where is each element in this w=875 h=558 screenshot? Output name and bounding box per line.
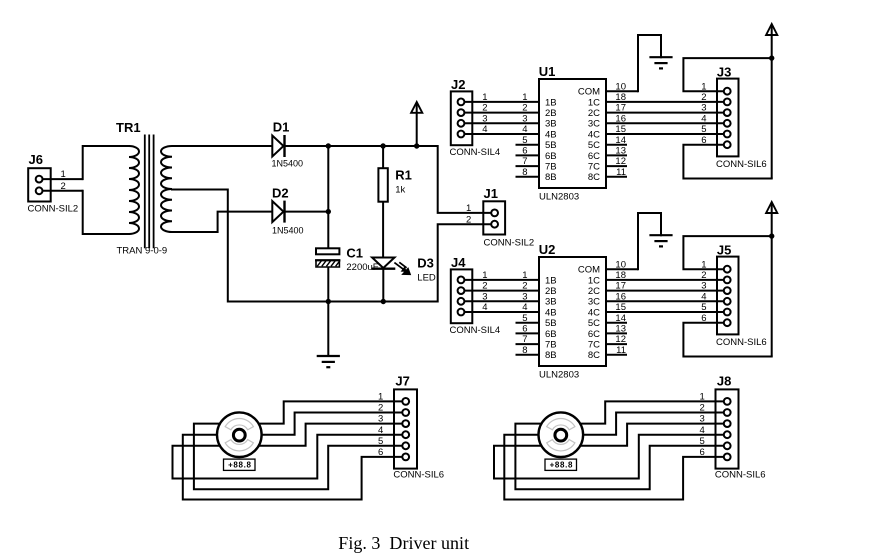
wire motor RB to J7 pin 3 bbox=[239, 424, 405, 446]
junction D2/C1 node bbox=[326, 209, 331, 214]
svg-text:3: 3 bbox=[378, 414, 383, 425]
svg-text:13: 13 bbox=[615, 324, 626, 335]
svg-text:8B: 8B bbox=[545, 172, 557, 183]
svg-text:7B: 7B bbox=[545, 162, 557, 173]
svg-text:15: 15 bbox=[615, 124, 626, 135]
wire C1 to 0V rail bbox=[327, 267, 329, 302]
svg-text:5: 5 bbox=[701, 124, 706, 135]
connector J4 (CONN-SIL4) bbox=[450, 255, 540, 336]
wire C1 branch vertical bbox=[327, 146, 329, 248]
svg-text:D3: D3 bbox=[417, 256, 434, 271]
svg-text:8: 8 bbox=[522, 167, 527, 178]
wire R1 to D3 bbox=[382, 202, 384, 258]
svg-text:6: 6 bbox=[378, 447, 383, 458]
svg-text:2C: 2C bbox=[588, 108, 600, 119]
svg-text:2: 2 bbox=[522, 103, 527, 114]
resistor R1 1k bbox=[378, 168, 387, 202]
svg-text:4C: 4C bbox=[588, 129, 600, 140]
svg-text:6C: 6C bbox=[588, 151, 600, 162]
svg-text:1: 1 bbox=[482, 92, 487, 103]
svg-text:6: 6 bbox=[701, 135, 706, 146]
svg-text:Fig. 3 Driver unit: Fig. 3 Driver unit bbox=[338, 533, 469, 553]
LED D3 bbox=[371, 258, 411, 276]
wire ground stem bbox=[327, 302, 329, 357]
svg-text:LED: LED bbox=[417, 273, 436, 284]
connector J2 (CONN-SIL4) bbox=[450, 77, 540, 158]
wire motor LT to J8 pin 5 bbox=[515, 424, 727, 490]
junction top rail / R1 branch bbox=[380, 143, 385, 148]
svg-text:3C: 3C bbox=[588, 297, 600, 308]
svg-text:16: 16 bbox=[615, 291, 626, 302]
svg-text:3: 3 bbox=[522, 291, 527, 302]
stub U1 pin 14 (5C) bbox=[606, 144, 627, 146]
connector J7 (CONN-SIL6) bbox=[393, 373, 444, 480]
wire D3 cathode to 0V rail bbox=[382, 269, 384, 302]
svg-text:J8: J8 bbox=[717, 373, 731, 388]
svg-text:CONN-SIL6: CONN-SIL6 bbox=[393, 470, 444, 481]
svg-text:1B: 1B bbox=[545, 97, 557, 108]
wire R1 top bbox=[382, 146, 384, 168]
svg-text:4: 4 bbox=[482, 302, 487, 313]
svg-text:17: 17 bbox=[615, 281, 626, 292]
svg-text:8C: 8C bbox=[588, 172, 600, 183]
power symbol +V arrow (J5) bbox=[766, 202, 777, 357]
svg-text:5: 5 bbox=[700, 436, 705, 447]
svg-text:7C: 7C bbox=[588, 340, 600, 351]
wire U1 3C to J3 pin 4 bbox=[606, 122, 727, 124]
wire J1 pin 2 to 0V rail bbox=[438, 224, 495, 301]
svg-text:J7: J7 bbox=[395, 373, 409, 388]
svg-text:J4: J4 bbox=[451, 255, 466, 270]
svg-text:4B: 4B bbox=[545, 307, 557, 318]
svg-text:D2: D2 bbox=[272, 186, 289, 201]
diode D2 1N5400 bbox=[272, 201, 284, 223]
junction top rail / C1 branch bbox=[326, 143, 331, 148]
ground symbol (U2 COM) bbox=[649, 235, 672, 246]
svg-text:1: 1 bbox=[701, 81, 706, 92]
svg-text:5C: 5C bbox=[588, 140, 600, 151]
svg-text:1C: 1C bbox=[588, 97, 600, 108]
svg-text:6: 6 bbox=[522, 146, 527, 157]
junction top rail / power arrow bbox=[414, 143, 419, 148]
svg-text:CONN-SIL4: CONN-SIL4 bbox=[450, 325, 501, 336]
svg-text:1: 1 bbox=[522, 270, 527, 281]
wire J6.2 to TR1 primary bottom bbox=[83, 191, 129, 234]
svg-text:CONN-SIL6: CONN-SIL6 bbox=[716, 159, 767, 170]
svg-text:J6: J6 bbox=[29, 152, 43, 167]
svg-text:3: 3 bbox=[482, 291, 487, 302]
svg-text:2: 2 bbox=[482, 281, 487, 292]
svg-text:8: 8 bbox=[522, 345, 527, 356]
wire U1 COM to ground bbox=[638, 35, 661, 91]
svg-text:CONN-SIL6: CONN-SIL6 bbox=[716, 337, 767, 348]
wire motor LT to J7 pin 5 bbox=[194, 424, 406, 490]
svg-text:J3: J3 bbox=[717, 64, 731, 79]
svg-text:6B: 6B bbox=[545, 329, 557, 340]
svg-text:11: 11 bbox=[616, 167, 626, 178]
stub U2 pin 10 (COM) bbox=[606, 268, 638, 270]
capacitor C1 2200uF bbox=[315, 248, 340, 267]
stub U2 pin 6 (6B) bbox=[516, 332, 540, 334]
svg-text:CONN-SIL4: CONN-SIL4 bbox=[450, 147, 501, 158]
wire U2 4C to J5 pin 5 bbox=[606, 311, 727, 313]
diode D1 1N5400 bbox=[272, 135, 284, 157]
stub U1 pin 6 (6B) bbox=[516, 154, 540, 156]
svg-text:1C: 1C bbox=[588, 275, 600, 286]
svg-text:5: 5 bbox=[378, 436, 383, 447]
wire motor LC to J8 pin 6 bbox=[504, 435, 727, 500]
svg-text:18: 18 bbox=[615, 92, 626, 103]
svg-text:4C: 4C bbox=[588, 307, 600, 318]
svg-text:5: 5 bbox=[522, 135, 527, 146]
motor display +88.8 (J7) bbox=[224, 459, 256, 470]
transformer TR1 secondary winding bbox=[161, 146, 172, 232]
ground symbol (supply) bbox=[317, 356, 340, 367]
svg-text:6C: 6C bbox=[588, 329, 600, 340]
connector J5 (CONN-SIL6) bbox=[716, 242, 767, 348]
svg-text:5B: 5B bbox=[545, 318, 557, 329]
svg-text:+88.8: +88.8 bbox=[228, 461, 251, 470]
svg-text:TRAN 9-0-9: TRAN 9-0-9 bbox=[117, 246, 168, 257]
svg-text:8B: 8B bbox=[545, 350, 557, 361]
svg-text:15: 15 bbox=[615, 302, 626, 313]
motor display +88.8 (J8) bbox=[545, 459, 577, 470]
svg-text:1N5400: 1N5400 bbox=[272, 226, 304, 236]
svg-text:+88.8: +88.8 bbox=[550, 461, 573, 470]
svg-text:D1: D1 bbox=[273, 120, 290, 135]
wire U2 3C to J5 pin 4 bbox=[606, 300, 727, 302]
wire motor RT to J8 pin 1 bbox=[561, 401, 727, 423]
wire J6.1 to TR1 primary top bbox=[83, 146, 129, 179]
svg-text:2: 2 bbox=[522, 281, 527, 292]
svg-text:1: 1 bbox=[701, 259, 706, 270]
stub U2 pin 8 (8B) bbox=[516, 354, 540, 356]
connector J1 (CONN-SIL2) bbox=[483, 186, 534, 249]
wire J3 pin 6 to +V rail bbox=[683, 145, 771, 179]
svg-text:10: 10 bbox=[615, 259, 626, 270]
svg-text:10: 10 bbox=[615, 81, 626, 92]
svg-text:1: 1 bbox=[522, 92, 527, 103]
wire motor RT to J7 pin 1 bbox=[239, 401, 405, 423]
svg-text:C1: C1 bbox=[346, 246, 363, 261]
IC U1 ULN2803 body bbox=[539, 79, 606, 188]
svg-text:6: 6 bbox=[700, 447, 705, 458]
svg-text:4: 4 bbox=[522, 302, 527, 313]
svg-text:12: 12 bbox=[615, 334, 626, 345]
stub U2 pin 12 (7C) bbox=[606, 343, 627, 345]
transformer TR1 core bbox=[144, 135, 146, 249]
IC U2 ULN2803 body bbox=[539, 257, 606, 366]
svg-text:8C: 8C bbox=[588, 350, 600, 361]
svg-text:U1: U1 bbox=[539, 64, 556, 79]
stub U1 pin 5 (5B) bbox=[516, 144, 540, 146]
wire motor LB to J7 pin 4 bbox=[173, 435, 406, 479]
svg-text:4: 4 bbox=[700, 425, 705, 436]
stub U1 pin 7 (7B) bbox=[516, 165, 540, 167]
svg-text:12: 12 bbox=[615, 156, 626, 167]
wire J5 pin 1 to +V rail bbox=[683, 236, 771, 269]
stub U1 pin 11 (8C) bbox=[606, 176, 627, 178]
svg-text:6B: 6B bbox=[545, 151, 557, 162]
stepper motor (J8) bbox=[539, 412, 584, 457]
svg-text:COM: COM bbox=[578, 265, 600, 276]
wire motor RC to J7 pin 2 bbox=[239, 413, 405, 435]
wire U2 COM to ground bbox=[638, 213, 661, 269]
svg-text:2: 2 bbox=[378, 403, 383, 414]
stub U2 pin 11 (8C) bbox=[606, 354, 627, 356]
svg-text:3: 3 bbox=[522, 113, 527, 124]
stub U2 pin 5 (5B) bbox=[516, 322, 540, 324]
svg-text:14: 14 bbox=[615, 313, 626, 324]
svg-text:3B: 3B bbox=[545, 119, 557, 130]
ground symbol (U1 COM) bbox=[649, 57, 672, 68]
svg-text:4: 4 bbox=[701, 113, 706, 124]
junction 0V rail / ground bbox=[326, 299, 331, 304]
svg-text:1B: 1B bbox=[545, 275, 557, 286]
wire U1 2C to J3 pin 3 bbox=[606, 112, 727, 114]
wire TR1 center tap to 0V rail bbox=[172, 190, 228, 302]
wire J5 pin 6 to +V rail bbox=[683, 323, 771, 357]
stub U1 pin 13 (6C) bbox=[606, 154, 627, 156]
svg-text:2: 2 bbox=[701, 92, 706, 103]
svg-text:3C: 3C bbox=[588, 119, 600, 130]
svg-text:J1: J1 bbox=[484, 186, 498, 201]
svg-text:3: 3 bbox=[701, 103, 706, 114]
stub U2 pin 7 (7B) bbox=[516, 343, 540, 345]
svg-text:TR1: TR1 bbox=[116, 120, 141, 135]
svg-text:16: 16 bbox=[615, 113, 626, 124]
svg-text:3: 3 bbox=[701, 281, 706, 292]
svg-text:1N5400: 1N5400 bbox=[272, 159, 304, 169]
svg-text:11: 11 bbox=[616, 345, 626, 356]
svg-text:1: 1 bbox=[378, 392, 383, 403]
svg-text:7: 7 bbox=[522, 334, 527, 345]
svg-text:2B: 2B bbox=[545, 286, 557, 297]
stub U2 pin 13 (6C) bbox=[606, 332, 627, 334]
svg-text:4: 4 bbox=[701, 291, 706, 302]
svg-text:1: 1 bbox=[466, 203, 471, 214]
wire +V rail to J1 pin 1 bbox=[438, 146, 495, 213]
stub U1 pin 12 (7C) bbox=[606, 165, 627, 167]
svg-text:1: 1 bbox=[700, 392, 705, 403]
svg-text:5C: 5C bbox=[588, 318, 600, 329]
svg-text:2: 2 bbox=[701, 270, 706, 281]
svg-text:13: 13 bbox=[615, 146, 626, 157]
power symbol +V arrow (center) bbox=[411, 102, 422, 146]
svg-text:4: 4 bbox=[482, 124, 487, 135]
wire J3 pin 1 to +V rail bbox=[683, 58, 771, 91]
stepper motor (J7) bbox=[217, 412, 262, 457]
wire U1 4C to J3 pin 5 bbox=[606, 133, 727, 135]
svg-text:1: 1 bbox=[61, 169, 66, 180]
junction J5 pin1 / +V rail bbox=[769, 233, 774, 238]
svg-text:2: 2 bbox=[466, 214, 471, 225]
svg-text:7: 7 bbox=[522, 156, 527, 167]
svg-text:5: 5 bbox=[701, 302, 706, 313]
svg-text:7C: 7C bbox=[588, 162, 600, 173]
wire TR1 secondary bottom to D2 anode bbox=[172, 212, 272, 232]
svg-text:3B: 3B bbox=[545, 297, 557, 308]
svg-text:2B: 2B bbox=[545, 108, 557, 119]
stub U1 pin 8 (8B) bbox=[516, 176, 540, 178]
svg-text:2C: 2C bbox=[588, 286, 600, 297]
connector J3 (CONN-SIL6) bbox=[716, 64, 767, 170]
svg-text:4: 4 bbox=[522, 124, 527, 135]
svg-text:17: 17 bbox=[615, 103, 626, 114]
stub U1 pin 10 (COM) bbox=[606, 90, 638, 92]
svg-text:7B: 7B bbox=[545, 340, 557, 351]
svg-text:ULN2803: ULN2803 bbox=[539, 192, 579, 203]
wire motor LB to J8 pin 4 bbox=[494, 435, 727, 479]
svg-text:1: 1 bbox=[482, 270, 487, 281]
svg-text:CONN-SIL6: CONN-SIL6 bbox=[715, 470, 766, 481]
connector J8 (CONN-SIL6) bbox=[715, 373, 766, 480]
svg-text:3: 3 bbox=[482, 113, 487, 124]
svg-text:2: 2 bbox=[482, 103, 487, 114]
wire D2 cathode to +V node bbox=[285, 211, 329, 213]
transformer TR1 primary winding bbox=[129, 146, 139, 234]
junction 0V rail / D3 branch bbox=[381, 299, 386, 304]
svg-text:1k: 1k bbox=[395, 184, 405, 195]
svg-text:14: 14 bbox=[615, 135, 626, 146]
svg-text:J5: J5 bbox=[717, 242, 731, 257]
svg-text:CONN-SIL2: CONN-SIL2 bbox=[28, 204, 79, 215]
svg-text:4B: 4B bbox=[545, 129, 557, 140]
svg-text:6: 6 bbox=[701, 313, 706, 324]
svg-text:18: 18 bbox=[615, 270, 626, 281]
svg-text:U2: U2 bbox=[539, 242, 556, 257]
svg-text:5B: 5B bbox=[545, 140, 557, 151]
svg-text:COM: COM bbox=[578, 87, 600, 98]
connector J6 (CONN-SIL2) bbox=[28, 152, 83, 214]
svg-text:3: 3 bbox=[700, 414, 705, 425]
wire +V top rail bbox=[285, 145, 438, 147]
svg-text:2: 2 bbox=[700, 403, 705, 414]
svg-text:J2: J2 bbox=[451, 77, 465, 92]
svg-text:2: 2 bbox=[61, 181, 66, 192]
wire U2 2C to J5 pin 3 bbox=[606, 290, 727, 292]
svg-text:4: 4 bbox=[378, 425, 383, 436]
wire motor LC to J7 pin 6 bbox=[183, 435, 406, 500]
wire motor RC to J8 pin 2 bbox=[561, 413, 727, 435]
wire U1 1C to J3 pin 2 bbox=[606, 101, 727, 103]
svg-text:6: 6 bbox=[522, 324, 527, 335]
wire TR1 secondary top to D1 anode bbox=[172, 145, 272, 147]
junction J3 pin1 / +V rail bbox=[769, 55, 774, 60]
wire U2 1C to J5 pin 2 bbox=[606, 279, 727, 281]
wire motor RB to J8 pin 3 bbox=[561, 424, 727, 446]
svg-text:R1: R1 bbox=[395, 168, 412, 183]
stub U2 pin 14 (5C) bbox=[606, 322, 627, 324]
svg-text:ULN2803: ULN2803 bbox=[539, 370, 579, 381]
svg-text:CONN-SIL2: CONN-SIL2 bbox=[484, 238, 535, 249]
svg-text:5: 5 bbox=[522, 313, 527, 324]
wire 0V bottom rail bbox=[228, 301, 438, 303]
power symbol +V arrow (J3) bbox=[766, 24, 777, 179]
